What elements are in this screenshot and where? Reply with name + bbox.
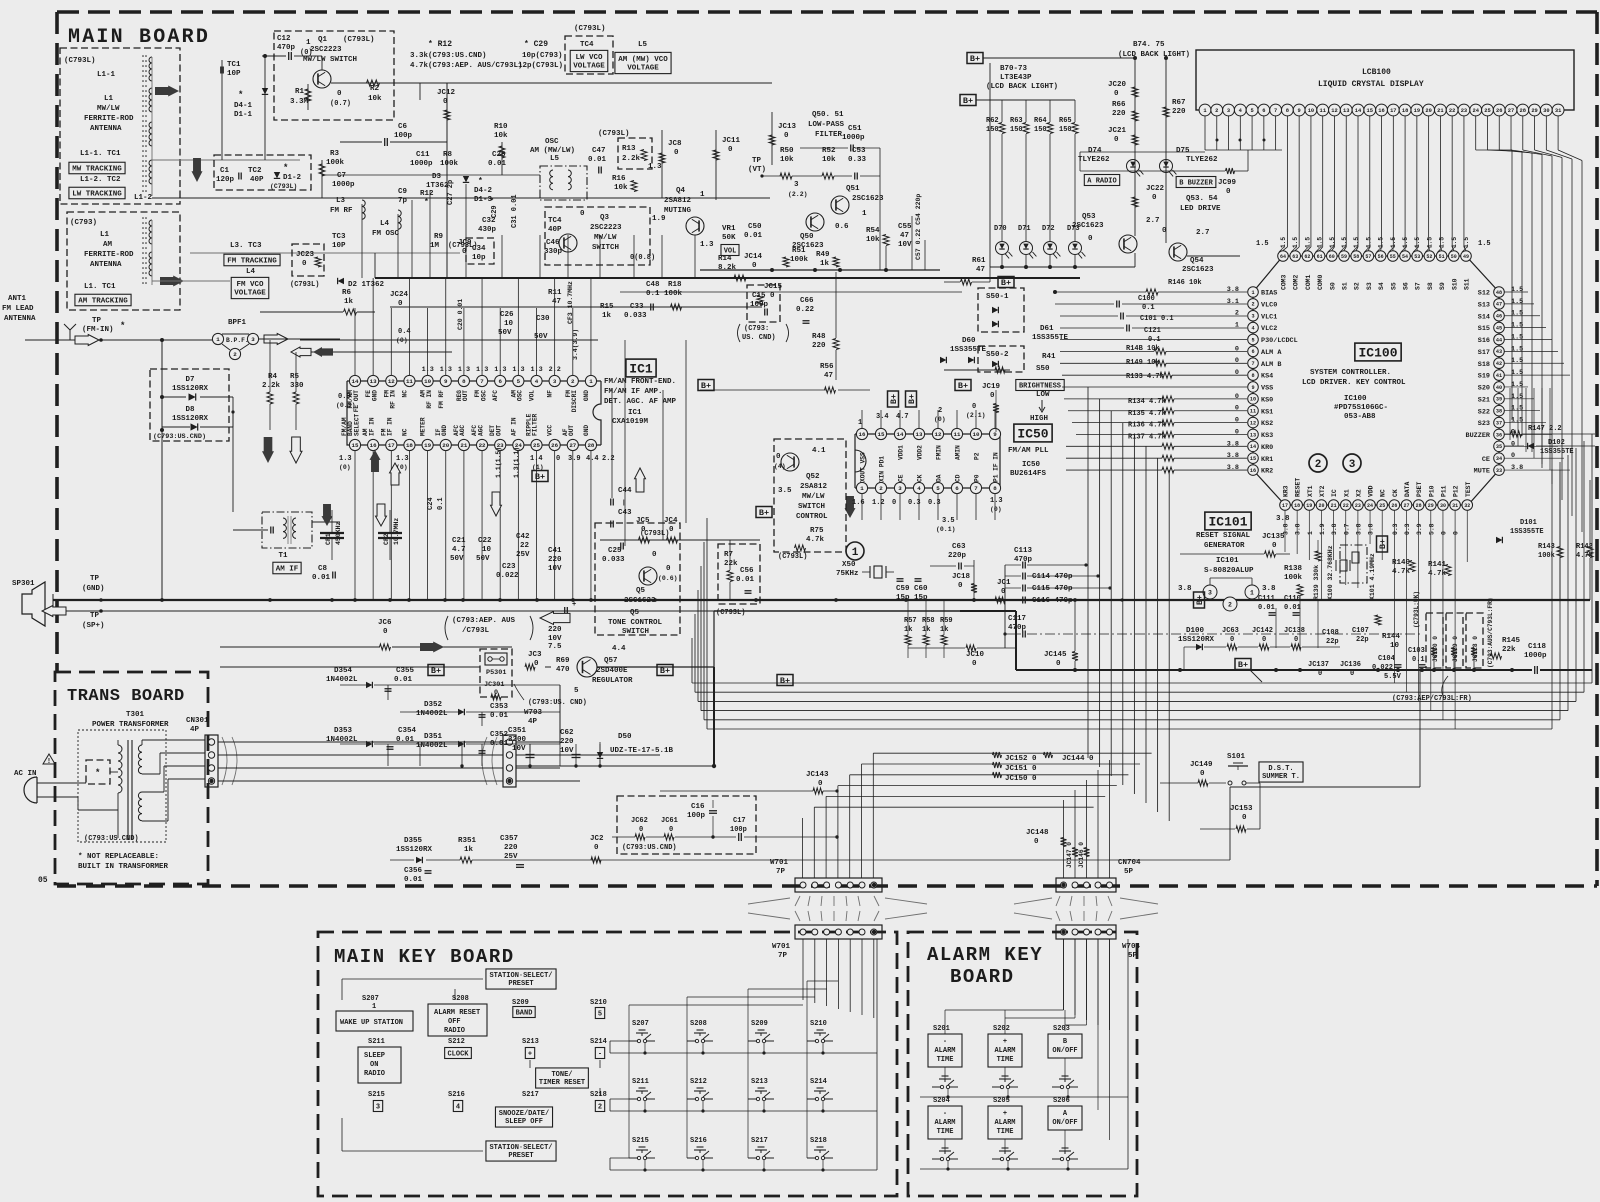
svg-text:0: 0 bbox=[752, 262, 757, 270]
svg-text:0: 0 bbox=[1350, 670, 1354, 678]
svg-text:S210: S210 bbox=[810, 1020, 827, 1028]
IC50 pin 5 bbox=[932, 482, 943, 493]
svg-text:KS0: KS0 bbox=[1261, 396, 1273, 404]
IC1 pin 7 bbox=[476, 375, 487, 386]
transistor Q51 bbox=[831, 196, 849, 214]
svg-text:Q5: Q5 bbox=[630, 609, 640, 617]
svg-text:0: 0 bbox=[1114, 136, 1119, 144]
svg-text:1SS355TE: 1SS355TE bbox=[1540, 448, 1574, 456]
svg-text:COM0: COM0 bbox=[1317, 274, 1324, 290]
svg-text:D1-3: D1-3 bbox=[474, 196, 493, 204]
svg-text:0.3: 0.3 bbox=[1392, 523, 1399, 535]
svg-text:R18: R18 bbox=[668, 281, 682, 289]
svg-text:4.7: 4.7 bbox=[452, 546, 466, 554]
svg-text:B74. 75: B74. 75 bbox=[1133, 41, 1165, 49]
svg-text:58: 58 bbox=[1353, 254, 1359, 260]
wire main B+ to PS301 bbox=[220, 666, 480, 668]
svg-text:19: 19 bbox=[1306, 503, 1312, 509]
svg-text:0: 0 bbox=[1440, 531, 1447, 535]
svg-text:8: 8 bbox=[462, 378, 466, 385]
svg-text:D1-1: D1-1 bbox=[234, 111, 253, 119]
svg-text:1.6: 1.6 bbox=[852, 499, 865, 507]
wire right return main kb bbox=[876, 939, 878, 1170]
antenna L1 coil windings bbox=[149, 57, 152, 81]
svg-text:16: 16 bbox=[370, 442, 377, 449]
svg-text:10: 10 bbox=[1308, 108, 1314, 114]
R7 C56 box bbox=[718, 544, 760, 604]
IC100 pin 53 S7 bbox=[1412, 251, 1423, 262]
IC100 pin 33 MUTE bbox=[1494, 465, 1505, 476]
svg-text:KS4: KS4 bbox=[1261, 373, 1273, 381]
B+ for R56 line bbox=[698, 380, 714, 391]
svg-text:1.5: 1.5 bbox=[1256, 240, 1269, 248]
svg-text:C26: C26 bbox=[500, 311, 514, 319]
svg-text:S2: S2 bbox=[1354, 282, 1361, 290]
svg-text:(0.1): (0.1) bbox=[936, 526, 956, 533]
svg-text:A RADIO: A RADIO bbox=[1087, 178, 1116, 186]
svg-text:1.9: 1.9 bbox=[1319, 523, 1326, 535]
svg-text:S202: S202 bbox=[993, 1025, 1010, 1033]
svg-text:S211: S211 bbox=[368, 1038, 385, 1046]
wire fm trunk thick bbox=[375, 277, 1080, 279]
PS301 box bbox=[480, 649, 512, 697]
svg-text:D8: D8 bbox=[185, 406, 195, 414]
svg-text:0.01: 0.01 bbox=[588, 156, 607, 164]
svg-text:CE: CE bbox=[898, 474, 905, 482]
IC1 pin 6 bbox=[495, 375, 506, 386]
svg-text:C107: C107 bbox=[1352, 627, 1369, 635]
svg-text:1M: 1M bbox=[430, 242, 440, 250]
svg-text:1.5: 1.5 bbox=[1511, 381, 1523, 389]
svg-text:21: 21 bbox=[460, 442, 467, 449]
svg-text:3.8: 3.8 bbox=[1178, 585, 1192, 593]
svg-text:X100 32.768KHz: X100 32.768KHz bbox=[1327, 545, 1334, 600]
svg-text:TC3: TC3 bbox=[332, 233, 346, 241]
svg-text:BAND: BAND bbox=[516, 1010, 533, 1018]
svg-text:470: 470 bbox=[556, 666, 570, 674]
svg-text:4.4: 4.4 bbox=[586, 455, 599, 463]
svg-text:16: 16 bbox=[859, 431, 866, 438]
svg-text:1.5: 1.5 bbox=[1511, 405, 1523, 413]
svg-text:0.1: 0.1 bbox=[1148, 336, 1161, 344]
svg-text:C32: C32 bbox=[482, 217, 496, 225]
svg-text:5.8: 5.8 bbox=[1428, 523, 1435, 535]
svg-text:16: 16 bbox=[1378, 108, 1384, 114]
B+ near Q52 bbox=[756, 507, 772, 518]
IC100 pin 64 COM3 bbox=[1278, 251, 1289, 262]
svg-text:MUTE: MUTE bbox=[1474, 468, 1490, 476]
svg-text:JC23: JC23 bbox=[296, 251, 315, 259]
svg-text:64: 64 bbox=[1280, 254, 1286, 260]
svg-text:*: * bbox=[120, 321, 125, 331]
svg-text:CLOCK: CLOCK bbox=[447, 1051, 469, 1059]
svg-text:1: 1 bbox=[589, 378, 593, 385]
IC100 pin 55 S5 bbox=[1388, 251, 1399, 262]
svg-text:C30: C30 bbox=[536, 315, 550, 323]
svg-text:47: 47 bbox=[900, 232, 909, 240]
brace W703 bbox=[482, 737, 497, 785]
svg-text:20: 20 bbox=[1318, 503, 1324, 509]
svg-text:IC1: IC1 bbox=[628, 409, 642, 417]
IC50 pin 3 bbox=[894, 482, 905, 493]
svg-text:JC135: JC135 bbox=[1262, 533, 1285, 541]
svg-text:5: 5 bbox=[936, 485, 940, 492]
svg-text:1.5: 1.5 bbox=[1511, 310, 1523, 318]
svg-text:R133 4.7k: R133 4.7k bbox=[1126, 373, 1164, 381]
svg-text:IC: IC bbox=[1331, 489, 1338, 497]
svg-text:1N4002L: 1N4002L bbox=[326, 676, 358, 684]
AM TRACKING label bbox=[75, 294, 131, 306]
svg-text:7: 7 bbox=[974, 485, 978, 492]
svg-text:GND: GND bbox=[371, 390, 378, 401]
svg-text:47: 47 bbox=[824, 372, 833, 380]
svg-text:Q4: Q4 bbox=[676, 187, 686, 195]
svg-text:P0: P0 bbox=[974, 474, 981, 482]
svg-text:C103: C103 bbox=[1408, 647, 1425, 655]
arrow after BPF1 bbox=[264, 334, 288, 345]
svg-text:1: 1 bbox=[1307, 531, 1314, 535]
svg-text:D352: D352 bbox=[424, 701, 443, 709]
svg-text:1.5: 1.5 bbox=[1511, 298, 1523, 306]
svg-text:L4: L4 bbox=[246, 268, 256, 276]
svg-text:B+: B+ bbox=[431, 666, 441, 676]
svg-text:VLC0: VLC0 bbox=[1261, 301, 1277, 309]
svg-text:S0: S0 bbox=[1329, 282, 1336, 290]
svg-text:S-80820ALUP: S-80820ALUP bbox=[1204, 567, 1254, 575]
svg-text:R51: R51 bbox=[792, 247, 806, 255]
svg-text:1.2: 1.2 bbox=[872, 499, 885, 507]
B+ box top bbox=[967, 53, 983, 64]
svg-text:OSC: OSC bbox=[545, 138, 559, 146]
svg-text:8: 8 bbox=[993, 485, 997, 492]
IC100 pin 28 PSET bbox=[1413, 500, 1424, 511]
svg-text:B+: B+ bbox=[535, 472, 545, 482]
IC1 pin 13 bbox=[368, 375, 379, 386]
IC100 pin 41 S19 bbox=[1494, 370, 1505, 381]
svg-text:W703: W703 bbox=[524, 709, 543, 717]
svg-text:50V: 50V bbox=[476, 555, 490, 563]
svg-text:1SS355TE: 1SS355TE bbox=[950, 346, 987, 354]
wire P30 line bbox=[1060, 339, 1247, 341]
IC100 pin 24 VDD bbox=[1365, 500, 1376, 511]
svg-text:(VT): (VT) bbox=[748, 166, 766, 174]
svg-text:25V: 25V bbox=[516, 551, 530, 559]
svg-text:0: 0 bbox=[776, 453, 781, 461]
svg-text:R58: R58 bbox=[922, 617, 935, 625]
svg-text:TEST: TEST bbox=[1465, 481, 1472, 497]
svg-text:34: 34 bbox=[1496, 456, 1502, 462]
svg-text:Q52: Q52 bbox=[806, 473, 820, 481]
svg-text:4.7k: 4.7k bbox=[1392, 568, 1411, 576]
svg-text:31: 31 bbox=[1452, 503, 1458, 509]
svg-text:R61: R61 bbox=[972, 257, 986, 265]
svg-text:(C793L:UK): (C793L:UK) bbox=[1413, 591, 1420, 628]
wire row y175 bbox=[322, 174, 540, 176]
IC100 pin 51 S9 bbox=[1436, 251, 1447, 262]
svg-text:D60: D60 bbox=[962, 337, 976, 345]
svg-text:S213: S213 bbox=[522, 1038, 539, 1046]
verticals under FM RF area bbox=[361, 204, 363, 278]
svg-text:R65: R65 bbox=[1059, 117, 1072, 125]
svg-text:UDZ-TE-17-5.1B: UDZ-TE-17-5.1B bbox=[610, 747, 674, 755]
svg-text:* NOT REPLACEABLE:: * NOT REPLACEABLE: bbox=[78, 853, 159, 861]
capacitor C15 box bbox=[747, 285, 780, 322]
svg-text:1.5: 1.5 bbox=[1478, 240, 1491, 248]
svg-text:IF IN: IF IN bbox=[387, 417, 394, 436]
svg-text:ALARM: ALARM bbox=[994, 1119, 1015, 1127]
svg-text:ALARM KEY: ALARM KEY bbox=[927, 944, 1043, 966]
svg-text:C352: C352 bbox=[490, 731, 509, 739]
svg-text:C29 *: C29 * bbox=[491, 197, 499, 218]
svg-text:330p: 330p bbox=[544, 248, 563, 256]
system controller IC100 body bbox=[1253, 256, 1499, 505]
svg-text:R54: R54 bbox=[866, 227, 880, 235]
svg-text:10k: 10k bbox=[822, 156, 836, 164]
svg-text:D101: D101 bbox=[1520, 519, 1537, 527]
svg-text:S218: S218 bbox=[590, 1091, 607, 1099]
IC100 pin 3 VLC1 bbox=[1248, 310, 1259, 321]
svg-text:7: 7 bbox=[1274, 108, 1277, 114]
IC50 pin 4 bbox=[913, 482, 924, 493]
IC1 pin 20 bbox=[440, 439, 451, 450]
svg-text:7: 7 bbox=[1251, 361, 1254, 367]
svg-text:JC13: JC13 bbox=[778, 123, 797, 131]
svg-text:MW/LW: MW/LW bbox=[594, 234, 617, 242]
alarm right wires bbox=[1005, 1109, 1098, 1111]
svg-text:0: 0 bbox=[972, 403, 976, 411]
IC1 label box bbox=[626, 359, 656, 377]
svg-text:3: 3 bbox=[898, 485, 902, 492]
svg-text:23: 23 bbox=[1355, 503, 1361, 509]
svg-text:B+: B+ bbox=[759, 508, 769, 518]
svg-text:0: 0 bbox=[1226, 188, 1231, 196]
svg-text:DA: DA bbox=[936, 474, 943, 482]
crystal X100 bbox=[1340, 560, 1347, 571]
svg-text:15: 15 bbox=[878, 431, 885, 438]
svg-text:S216: S216 bbox=[690, 1137, 707, 1145]
svg-text:1: 1 bbox=[1235, 322, 1239, 330]
IC100 pin 23 X2 bbox=[1353, 500, 1364, 511]
svg-text:R7: R7 bbox=[724, 551, 733, 559]
arrow down from L1 bbox=[192, 158, 203, 182]
svg-text:JC14: JC14 bbox=[744, 253, 763, 261]
plug wires bbox=[52, 782, 86, 784]
IC1 pin 12 bbox=[386, 375, 397, 386]
svg-text:2: 2 bbox=[598, 1104, 602, 1112]
svg-text:10V: 10V bbox=[512, 745, 526, 753]
svg-text:0: 0 bbox=[1272, 542, 1277, 550]
svg-text:(SP+): (SP+) bbox=[82, 622, 105, 630]
svg-text:L5: L5 bbox=[550, 155, 560, 163]
svg-text:4P: 4P bbox=[528, 718, 538, 726]
svg-text:0: 0 bbox=[302, 260, 307, 268]
svg-text:B+: B+ bbox=[963, 96, 973, 106]
power rows from W703 bbox=[516, 741, 560, 743]
svg-text:B70-73: B70-73 bbox=[1000, 65, 1028, 73]
svg-text:1.5: 1.5 bbox=[1329, 237, 1336, 248]
svg-text:C114 470p: C114 470p bbox=[1032, 573, 1073, 581]
svg-text:10p(C793): 10p(C793) bbox=[522, 52, 563, 60]
svg-text:(C793L): (C793L) bbox=[64, 57, 96, 65]
svg-text:1.4: 1.4 bbox=[530, 455, 543, 463]
IC100 pin 10 KS0 bbox=[1248, 394, 1259, 405]
svg-text:1.5: 1.5 bbox=[1511, 286, 1523, 294]
svg-text:1: 1 bbox=[1251, 290, 1254, 296]
tone timer reset box bbox=[536, 1068, 589, 1088]
svg-text:120p: 120p bbox=[216, 176, 235, 184]
svg-text:COM1: COM1 bbox=[1305, 274, 1312, 290]
svg-text:1.5: 1.5 bbox=[1463, 237, 1470, 248]
DST summer label bbox=[1259, 762, 1303, 782]
svg-text:NC: NC bbox=[1380, 489, 1387, 497]
svg-text:JC21: JC21 bbox=[1108, 127, 1127, 135]
svg-text:R5: R5 bbox=[290, 373, 300, 381]
svg-text:R13: R13 bbox=[622, 145, 636, 153]
svg-text:2: 2 bbox=[1228, 601, 1232, 608]
svg-text:3.8: 3.8 bbox=[1295, 523, 1302, 535]
C16 C17 box bbox=[617, 796, 756, 854]
svg-text:FERRITE-ROD: FERRITE-ROD bbox=[84, 251, 134, 259]
svg-text:JC2: JC2 bbox=[590, 835, 604, 843]
svg-text:S11: S11 bbox=[1464, 278, 1471, 290]
svg-text:2.2k: 2.2k bbox=[262, 382, 281, 390]
svg-text:R67: R67 bbox=[1172, 99, 1186, 107]
svg-text:0: 0 bbox=[1235, 345, 1239, 353]
svg-text:3.8: 3.8 bbox=[1227, 440, 1239, 448]
svg-text:3.8: 3.8 bbox=[1227, 286, 1239, 294]
svg-text:6: 6 bbox=[1262, 108, 1265, 114]
svg-text:1.5: 1.5 bbox=[1402, 237, 1409, 248]
svg-text:JC149: JC149 bbox=[1190, 761, 1213, 769]
svg-text:TONE CONTROL: TONE CONTROL bbox=[608, 619, 663, 627]
svg-text:S50-2: S50-2 bbox=[986, 351, 1009, 359]
svg-text:(C793): (C793) bbox=[70, 219, 97, 227]
svg-text:0: 0 bbox=[1242, 814, 1247, 822]
svg-text:0.3: 0.3 bbox=[1404, 523, 1411, 535]
svg-text:S101: S101 bbox=[1227, 753, 1246, 761]
svg-text:0: 0 bbox=[1453, 531, 1460, 535]
svg-text:2SC1623: 2SC1623 bbox=[1072, 222, 1104, 230]
svg-text:D354: D354 bbox=[334, 667, 353, 675]
svg-text:B+: B+ bbox=[907, 394, 917, 404]
svg-text:S9: S9 bbox=[1439, 282, 1446, 290]
svg-text:(C793L): (C793L) bbox=[290, 281, 319, 289]
svg-text:MAIN BOARD: MAIN BOARD bbox=[68, 26, 210, 49]
svg-text:3.9: 3.9 bbox=[568, 455, 581, 463]
wires LCD right group down right side bbox=[1476, 149, 1512, 151]
svg-text:D351: D351 bbox=[424, 733, 443, 741]
X101 dash box bbox=[1340, 545, 1367, 583]
IC100 pin 46 S14 bbox=[1494, 310, 1505, 321]
svg-text:B+: B+ bbox=[1238, 660, 1248, 670]
svg-text:20: 20 bbox=[1425, 108, 1431, 114]
svg-text:30: 30 bbox=[1543, 108, 1549, 114]
svg-text:R140: R140 bbox=[1392, 559, 1411, 567]
svg-text:DATA: DATA bbox=[1404, 481, 1411, 497]
svg-text:Q1: Q1 bbox=[318, 36, 328, 44]
svg-text:* C29: * C29 bbox=[524, 40, 548, 49]
svg-text:L3: L3 bbox=[336, 197, 346, 205]
svg-text:4: 4 bbox=[535, 378, 539, 385]
svg-text:3.8: 3.8 bbox=[1262, 585, 1276, 593]
IC100 pin 30 P11 bbox=[1438, 500, 1449, 511]
svg-text:ALARM: ALARM bbox=[934, 1119, 955, 1127]
IC50 pin 16 bbox=[856, 428, 867, 439]
svg-text:0: 0 bbox=[770, 292, 775, 300]
svg-text:Q50. 51: Q50. 51 bbox=[812, 111, 844, 119]
svg-text:C110: C110 bbox=[1284, 595, 1301, 603]
svg-text:330: 330 bbox=[290, 382, 304, 390]
svg-text:220: 220 bbox=[1172, 108, 1186, 116]
svg-text:C21: C21 bbox=[452, 537, 466, 545]
svg-text:S209: S209 bbox=[512, 999, 529, 1007]
mid horizontal bundle 6 wires bbox=[692, 682, 1592, 684]
svg-text:50V: 50V bbox=[450, 555, 464, 563]
svg-text:C62: C62 bbox=[560, 729, 574, 737]
svg-text:2.2: 2.2 bbox=[602, 455, 615, 463]
svg-text:(C793:AEP. AUS: (C793:AEP. AUS bbox=[452, 617, 516, 625]
svg-text:9: 9 bbox=[1298, 108, 1301, 114]
svg-text:S5: S5 bbox=[1390, 282, 1397, 290]
svg-text:1SS355TE: 1SS355TE bbox=[1510, 528, 1544, 536]
svg-text:LOW: LOW bbox=[1036, 391, 1050, 399]
IC100 pin 32 TEST bbox=[1462, 500, 1473, 511]
svg-text:0: 0 bbox=[1114, 90, 1119, 98]
svg-text:1.9: 1.9 bbox=[652, 215, 666, 223]
svg-text:S22: S22 bbox=[1478, 408, 1490, 416]
svg-text:LCD DRIVER. KEY CONTROL: LCD DRIVER. KEY CONTROL bbox=[1302, 379, 1406, 387]
svg-text:TIME: TIME bbox=[937, 1056, 954, 1064]
svg-text:ALM A: ALM A bbox=[1261, 349, 1282, 357]
svg-text:2SA812: 2SA812 bbox=[800, 483, 828, 491]
svg-text:220: 220 bbox=[504, 844, 518, 852]
alarm feed wires bbox=[920, 1009, 1064, 1011]
svg-text:FM OSC: FM OSC bbox=[372, 230, 400, 238]
svg-text:L1. TC1: L1. TC1 bbox=[84, 283, 116, 291]
svg-text:0.033: 0.033 bbox=[624, 312, 647, 320]
svg-text:0.1: 0.1 bbox=[437, 497, 445, 510]
B+ mid right bbox=[955, 380, 971, 391]
transformer dotted box bbox=[78, 730, 166, 842]
svg-text:0: 0 bbox=[1200, 770, 1205, 778]
svg-text:S214: S214 bbox=[590, 1038, 607, 1046]
svg-text:L1-1. TC1: L1-1. TC1 bbox=[80, 150, 121, 158]
svg-text:COM3: COM3 bbox=[1281, 274, 1288, 290]
svg-text:C63: C63 bbox=[952, 543, 966, 551]
svg-text:R143: R143 bbox=[1538, 543, 1555, 551]
svg-text:C25: C25 bbox=[608, 547, 622, 555]
svg-text:JC301: JC301 bbox=[484, 681, 504, 689]
svg-text:29: 29 bbox=[1531, 108, 1537, 114]
svg-text:P11: P11 bbox=[1440, 485, 1447, 497]
svg-text:54: 54 bbox=[1402, 254, 1408, 260]
svg-text:JC5: JC5 bbox=[636, 517, 650, 525]
svg-text:5: 5 bbox=[598, 1011, 602, 1019]
svg-text:0.9: 0.9 bbox=[338, 393, 351, 401]
svg-text:18: 18 bbox=[406, 442, 413, 449]
wires into alarm kb bbox=[1063, 939, 1065, 1010]
svg-text:JC142: JC142 bbox=[1252, 627, 1273, 635]
svg-text:7.5: 7.5 bbox=[548, 643, 562, 651]
svg-text:13: 13 bbox=[370, 378, 377, 385]
svg-text:VOLTAGE: VOLTAGE bbox=[627, 64, 659, 72]
IC1 pin 11 bbox=[404, 375, 415, 386]
IC50 pin 13 bbox=[913, 428, 924, 439]
svg-text:L4: L4 bbox=[380, 220, 390, 228]
IC100 pin 59 S1 bbox=[1339, 251, 1350, 262]
svg-text:BOARD: BOARD bbox=[950, 966, 1015, 988]
svg-text:1.5: 1.5 bbox=[1511, 369, 1523, 377]
